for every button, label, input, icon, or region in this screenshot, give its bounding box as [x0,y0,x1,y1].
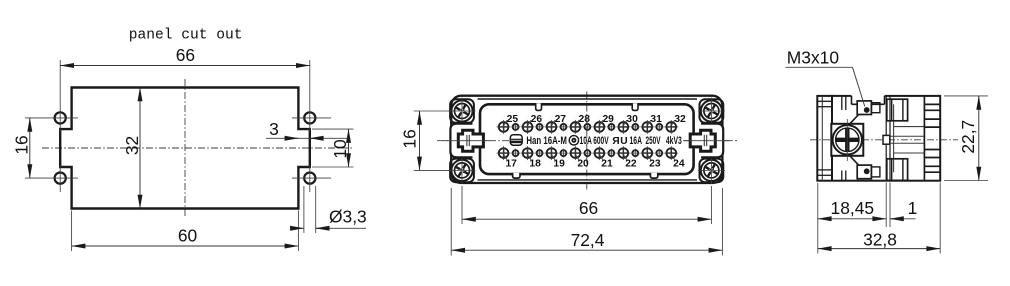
contact 22 [616,146,637,169]
contact 20 [568,146,589,169]
centerline horizontal (front view) [437,140,737,142]
centerline horizontal (panel cutout) [42,147,352,149]
svg-text:24: 24 [673,158,685,169]
svg-text:10A: 10A [580,135,593,147]
dim 1 [890,198,917,219]
svg-text:17: 17 [505,158,517,169]
terminal boss top (side view) [887,99,908,121]
intermediate hole top 2 [535,123,544,132]
contact 31 [640,114,662,134]
side view main body [832,96,940,181]
intermediate hole bottom 2 [535,149,544,158]
intermediate hole top 4 [583,123,592,132]
contact 23 [640,146,661,169]
svg-text:20: 20 [577,158,589,169]
marking: 16A [630,135,643,147]
svg-text:66: 66 [176,45,195,65]
terminal boss bottom (side view) [887,159,908,181]
intermediate hole top 7 [655,123,664,132]
dim 18,45 [818,183,890,254]
dim 60 (bottom) [72,211,299,252]
svg-text:600V: 600V [593,135,608,147]
panel cutout outline [60,88,310,209]
dim 32 (vertical inside) [122,88,142,209]
intermediate hole bottom 5 [607,149,616,158]
flange step lines [478,99,698,180]
svg-text:10: 10 [330,139,350,158]
guide bushing left [443,124,490,158]
insert tab bottom x=516.3 [513,173,520,178]
dim 22,7 (side view height) [944,96,988,181]
intermediate hole bottom 7 [655,149,664,158]
svg-text:21: 21 [601,158,613,169]
intermediate hole bottom 3 [559,149,568,158]
svg-text:22,7: 22,7 [958,120,978,154]
side view centerline [810,139,958,141]
svg-text:250V: 250V [646,135,661,147]
dim 66 (screw spacing horizontal) [462,186,711,224]
guide socket square (side view) [831,124,863,156]
dim 3 (notch depth) [266,119,349,139]
svg-text:60: 60 [178,226,197,246]
marking: Han 16A-M [526,135,567,147]
guide socket circle with cross [833,119,862,161]
contact 18 [521,146,542,169]
insert outline [480,104,694,174]
dim 72,4 (overall width) [451,188,722,256]
svg-text:23: 23 [649,158,661,169]
M3 screw head bottom (side view) [857,165,880,179]
contact 28 [568,114,590,134]
contact 26 [521,114,543,134]
intermediate hole top 5 [607,123,616,132]
marking: 250V [646,135,661,147]
svg-text:R: R [612,136,620,147]
interior shelf lines (side view) [890,127,924,153]
svg-text:Han 16A-M: Han 16A-M [526,135,567,147]
side view flange plate [817,96,832,181]
insert tab bottom x=654.1 [650,173,657,178]
small latch square on centerline [883,135,890,144]
svg-text:19: 19 [553,158,565,169]
svg-text:16: 16 [399,129,419,148]
intermediate hole bottom 1 [511,149,520,158]
marking: 10A [580,135,593,147]
label M3x10 with leader [786,48,865,107]
inner vertical wall [893,104,895,172]
funnel diagonals (side view) [850,112,861,168]
contact 32 [664,114,686,134]
svg-text:1: 1 [908,198,918,218]
svg-text:16: 16 [12,135,32,154]
rear rib ladder (side view) [924,96,940,181]
screw pad top-left [450,99,474,123]
svg-text:panel cut out: panel cut out [129,28,243,44]
contact 17 [497,146,518,169]
svg-text:32: 32 [674,114,686,125]
marking: crimp symbol [510,135,522,146]
svg-text:4kV3: 4kV3 [666,135,682,147]
svg-text:72,4: 72,4 [571,230,605,250]
svg-text:18,45: 18,45 [831,198,875,218]
screw bottom-right [698,157,725,184]
flange step verticals (side view) [842,96,846,181]
marking: UL recognized [612,136,628,147]
marking: 4kV3 [666,135,682,147]
dim 66 (top) [60,45,310,65]
svg-text:Ø3,3: Ø3,3 [329,206,367,226]
hole bottom-right Ø3,3 [292,165,331,192]
contact 25 [497,114,519,134]
contact 21 [592,146,613,169]
screw top-right [698,98,725,125]
side view top recess [852,94,885,104]
intermediate hole top 6 [631,123,640,132]
marking: approval circle [569,136,578,145]
screw pad bottom-left [450,159,474,183]
screw bottom-left [449,157,476,184]
svg-text:U: U [620,136,627,147]
contact 30 [616,114,638,134]
dim 32,8 [818,183,940,254]
svg-text:3: 3 [269,119,279,139]
hole top-right Ø3,3 [292,60,331,132]
intermediate hole bottom 4 [583,149,592,158]
svg-text:22: 22 [625,158,637,169]
panel plane lines (side view) [886,96,890,181]
intermediate hole top 1 [511,123,520,132]
dim 16 (screw spacing, front view) [399,111,450,170]
dim Ø3,3 (hole diameter leader) [293,186,367,233]
centerline vertical (front view) [586,92,588,192]
contact 24 [664,146,685,169]
svg-text:18: 18 [529,158,541,169]
housing flange outline [451,96,722,183]
insert notch top x=635.1 [632,103,638,110]
contact 19 [545,146,566,169]
screw top-left [449,98,476,125]
contact 27 [545,114,567,134]
intermediate hole bottom 6 [631,149,640,158]
intermediate hole top 3 [559,123,568,132]
centerline vertical (panel cutout) [184,79,186,218]
dim 16 (left, hole spacing) [12,118,32,178]
hole top-left Ø3,3 [25,60,78,132]
svg-text:M3x10: M3x10 [787,48,839,68]
dim 10 (right notch height) [312,129,354,167]
hole bottom-left Ø3,3 [25,165,78,192]
guide bushing right [684,124,731,158]
title: panel cut out [129,28,243,44]
M3 screw head top (side view) [857,101,880,115]
screw pad top-right [700,99,724,123]
svg-text:32: 32 [122,136,142,155]
contact 29 [592,114,614,134]
svg-text:32,8: 32,8 [863,229,897,249]
svg-text:16A: 16A [630,135,643,147]
insert notch top x=538.6 [536,103,542,110]
screw pad bottom-right [700,159,724,183]
marking: 600V [593,135,608,147]
svg-text:66: 66 [579,198,598,218]
